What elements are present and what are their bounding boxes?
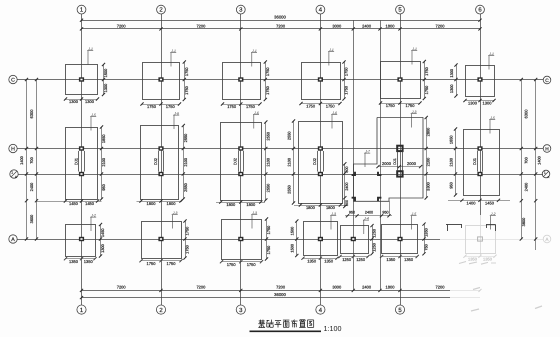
svg-text:1750: 1750 bbox=[184, 244, 189, 253]
svg-text:2550: 2550 bbox=[183, 182, 188, 191]
svg-text:1800: 1800 bbox=[306, 205, 316, 210]
svg-text:1300: 1300 bbox=[468, 101, 478, 106]
right dim text 3800 bbox=[521, 217, 526, 226]
footing J-3 at row A (A4) outline bbox=[304, 222, 338, 256]
leader flag J-2 at A1 bbox=[90, 214, 96, 232]
corner column L annex top-right bbox=[378, 172, 381, 175]
column at C4 bbox=[318, 77, 323, 81]
footing C2 bottom dimension bbox=[140, 102, 181, 109]
svg-text:7200: 7200 bbox=[117, 23, 127, 28]
footing C2 side dimension bbox=[183, 60, 189, 101]
svg-text:2100: 2100 bbox=[265, 157, 270, 166]
left dim text 1400 bbox=[19, 155, 24, 164]
column at A row A4a bbox=[351, 237, 356, 241]
svg-text:2550: 2550 bbox=[286, 184, 291, 193]
footing J-2 at row A (A1) outline bbox=[66, 225, 96, 257]
leader flag at middle row 6 bbox=[489, 116, 495, 134]
svg-text:J-6: J-6 bbox=[173, 112, 179, 116]
footing A6 bottom dimension bbox=[463, 255, 496, 262]
footing DJ22 side dimension bbox=[182, 124, 188, 201]
footing C5 bottom dimension bbox=[379, 101, 422, 108]
leader flag J-3 DJ3 top bbox=[411, 110, 417, 128]
svg-text:2550: 2550 bbox=[183, 133, 188, 142]
svg-text:1750: 1750 bbox=[386, 103, 396, 108]
axis bubble H right bbox=[543, 145, 551, 153]
svg-text:2100: 2100 bbox=[183, 157, 188, 166]
column at H3 bbox=[238, 146, 243, 150]
column at A row A4 bbox=[318, 237, 323, 241]
left dimension line outer bbox=[25, 78, 28, 241]
svg-text:DJ2: DJ2 bbox=[153, 158, 158, 165]
leader flag J-1 at C3 bbox=[251, 49, 257, 67]
svg-text:J-4: J-4 bbox=[363, 217, 369, 221]
left dim text 2400 bbox=[29, 182, 34, 191]
svg-text:7200: 7200 bbox=[436, 23, 446, 28]
svg-text:1800: 1800 bbox=[246, 202, 256, 207]
svg-text:1250: 1250 bbox=[342, 257, 352, 262]
axis line 1 vertical bbox=[81, 14, 83, 305]
svg-text:1750: 1750 bbox=[344, 67, 349, 76]
svg-text:1500: 1500 bbox=[290, 243, 295, 252]
corner column L annex top-left bbox=[352, 172, 355, 175]
footing A4 bottom dimension bbox=[301, 257, 338, 264]
svg-text:J-2: J-2 bbox=[90, 214, 96, 218]
svg-text:1350: 1350 bbox=[468, 257, 478, 262]
footing A4a bottom dimension bbox=[338, 255, 369, 262]
strip label DJ2 bbox=[153, 158, 158, 165]
svg-text:DJ2: DJ2 bbox=[233, 158, 238, 165]
svg-text:1750: 1750 bbox=[147, 104, 157, 109]
column at C2 bbox=[158, 77, 163, 81]
left dimension line inner bbox=[35, 78, 38, 241]
svg-text:J-1: J-1 bbox=[328, 48, 334, 52]
svg-text:2400: 2400 bbox=[362, 285, 372, 290]
strip label DJ1 bbox=[472, 158, 477, 165]
svg-text:1450: 1450 bbox=[100, 228, 105, 237]
intermediate axis line x=353 bbox=[353, 20, 355, 290]
column at 1/A 4 bbox=[318, 172, 323, 176]
axis bubble 1/A right bbox=[542, 170, 550, 179]
svg-text:1450: 1450 bbox=[485, 201, 495, 206]
footing DJ23 side dimension bbox=[264, 120, 270, 201]
svg-text:C: C bbox=[11, 78, 15, 84]
svg-text:1750: 1750 bbox=[344, 85, 349, 94]
footing A5 bottom dimension bbox=[380, 255, 419, 262]
svg-text:1350: 1350 bbox=[483, 257, 493, 262]
svg-text:1750: 1750 bbox=[147, 261, 157, 266]
strip beam at axis 3 bbox=[239, 151, 244, 172]
footing DJ22 bottom dimension bbox=[137, 199, 183, 206]
svg-text:7200: 7200 bbox=[276, 285, 286, 290]
svg-text:1800: 1800 bbox=[386, 23, 396, 28]
svg-text:3000: 3000 bbox=[332, 23, 342, 28]
svg-text:1750: 1750 bbox=[424, 85, 429, 94]
strip beam at axis 2 bbox=[159, 151, 164, 172]
svg-text:1250: 1250 bbox=[371, 242, 376, 251]
footing DJ3 at axis 5 outline bbox=[354, 118, 424, 202]
axis line A horizontal bbox=[17, 239, 543, 241]
svg-text:1350: 1350 bbox=[69, 259, 79, 264]
svg-text:7200: 7200 bbox=[117, 285, 127, 290]
column at 1/A 2 bbox=[158, 172, 163, 176]
title 基础平面布置图 (stroke-drawn) bbox=[250, 320, 322, 332]
right dim text 2400 bbox=[524, 182, 529, 191]
top dimension line 7200 segments bbox=[80, 23, 482, 30]
svg-text:2400: 2400 bbox=[345, 182, 349, 190]
svg-text:1800: 1800 bbox=[167, 201, 177, 206]
annex left dimension 800 2400 800 bbox=[343, 162, 349, 208]
svg-text:3600: 3600 bbox=[29, 214, 34, 223]
svg-text:1300: 1300 bbox=[483, 101, 493, 106]
column at C1 bbox=[79, 77, 84, 81]
svg-text:2100: 2100 bbox=[286, 157, 291, 166]
svg-text:800: 800 bbox=[345, 166, 349, 172]
leader flag J-1 at C2 bbox=[170, 49, 176, 67]
axis bubble 2 top bbox=[157, 5, 166, 14]
right dim text 700 bbox=[524, 156, 529, 163]
axis bubble 5 bottom bbox=[395, 305, 404, 314]
svg-text:1850: 1850 bbox=[101, 134, 106, 143]
axis bubble 1 top bbox=[77, 5, 86, 14]
svg-text:1750: 1750 bbox=[406, 103, 416, 108]
svg-text:1750: 1750 bbox=[227, 104, 237, 109]
footing C4 side dimension bbox=[342, 60, 348, 100]
svg-text:J-3: J-3 bbox=[330, 212, 336, 216]
footing J-1 at C6 outline bbox=[466, 66, 495, 97]
svg-text:7200: 7200 bbox=[196, 285, 206, 290]
leader flag J-2 at A6 bbox=[490, 212, 496, 230]
axis line 4 vertical bbox=[320, 14, 322, 305]
axis bubble 6 top bbox=[476, 5, 485, 14]
footing C1 side dimension bbox=[102, 63, 108, 96]
svg-text:700: 700 bbox=[29, 156, 34, 163]
svg-text:2400: 2400 bbox=[29, 182, 34, 191]
svg-text:1: 1 bbox=[11, 171, 13, 175]
svg-text:2000: 2000 bbox=[407, 161, 417, 166]
svg-text:J-5: J-5 bbox=[90, 113, 96, 117]
svg-text:DJ1: DJ1 bbox=[393, 158, 397, 165]
svg-text:J-1: J-1 bbox=[170, 49, 176, 53]
svg-text:1350: 1350 bbox=[307, 259, 317, 264]
column at A row A2 bbox=[158, 237, 163, 241]
column at H2 bbox=[158, 146, 163, 150]
footing DJ16 side dimension bbox=[448, 127, 457, 196]
leader flag at middle row 3 bbox=[253, 111, 259, 129]
svg-text:1400: 1400 bbox=[19, 155, 24, 164]
right dim text 1400 bbox=[537, 155, 542, 164]
svg-text:1750: 1750 bbox=[167, 261, 177, 266]
svg-text:950: 950 bbox=[349, 210, 355, 214]
axis bubble 3 bottom bbox=[236, 305, 245, 314]
svg-text:H: H bbox=[545, 147, 549, 153]
strip beam at axis 4 bbox=[318, 151, 324, 172]
svg-text:2000: 2000 bbox=[382, 161, 392, 166]
svg-text:J-7: J-7 bbox=[364, 150, 370, 154]
axis bubble 3 top bbox=[236, 5, 245, 14]
corner column L annex bottom-left bbox=[352, 198, 355, 201]
left dim text 6300 bbox=[29, 109, 34, 119]
footing C3 side dimension bbox=[264, 60, 270, 101]
svg-text:6300: 6300 bbox=[524, 109, 529, 119]
svg-text:2800: 2800 bbox=[426, 127, 431, 136]
column big at H5 bbox=[397, 146, 402, 151]
svg-text:1800: 1800 bbox=[326, 205, 336, 210]
bottom dimension line 7200 segments bbox=[80, 285, 482, 292]
svg-text:1750: 1750 bbox=[265, 67, 270, 76]
svg-text:1350: 1350 bbox=[404, 257, 414, 262]
svg-text:1750: 1750 bbox=[266, 225, 271, 234]
svg-text:1750: 1750 bbox=[306, 104, 316, 109]
svg-text:6300: 6300 bbox=[29, 109, 34, 119]
svg-text:36000: 36000 bbox=[274, 292, 286, 297]
column at C6 bbox=[477, 77, 482, 81]
strip beam at axis 6 bbox=[478, 151, 483, 172]
svg-text:750: 750 bbox=[423, 243, 428, 250]
axis bubble 4 top bbox=[316, 5, 325, 14]
top overall dimension line 36000 bbox=[80, 15, 482, 22]
svg-text:1300: 1300 bbox=[69, 99, 79, 104]
column at H1 bbox=[79, 146, 84, 150]
svg-text:DJ1: DJ1 bbox=[472, 158, 477, 165]
leader flag J-3 at A3 bbox=[251, 211, 257, 229]
svg-text:1850: 1850 bbox=[448, 135, 453, 144]
svg-text:1350: 1350 bbox=[84, 259, 94, 264]
svg-text:1250: 1250 bbox=[371, 228, 376, 237]
leader flag J-1 at C4 bbox=[328, 48, 334, 66]
leader flag J-1 at C6 bbox=[488, 52, 494, 70]
axis line 2 vertical bbox=[161, 14, 163, 305]
footing A2 bottom dimension bbox=[139, 259, 182, 266]
svg-text:1300: 1300 bbox=[103, 83, 108, 92]
svg-text:2100: 2100 bbox=[101, 157, 106, 166]
svg-text:J-1: J-1 bbox=[251, 49, 257, 53]
svg-text:2100: 2100 bbox=[448, 157, 453, 166]
svg-text:DJ1: DJ1 bbox=[73, 158, 78, 165]
svg-text:1450: 1450 bbox=[69, 201, 79, 206]
svg-text:1750: 1750 bbox=[247, 262, 257, 267]
svg-text:7200: 7200 bbox=[196, 23, 206, 28]
footing A1 bottom dimension bbox=[64, 257, 97, 264]
extension line annex step bbox=[389, 201, 391, 216]
svg-text:2100: 2100 bbox=[426, 157, 431, 166]
svg-text:2550: 2550 bbox=[286, 131, 291, 140]
leader flag J-5 at A5 bbox=[411, 212, 417, 230]
svg-text:7200: 7200 bbox=[276, 23, 286, 28]
axis bubble C left bbox=[9, 75, 17, 83]
strip label DJ2 bbox=[312, 158, 317, 165]
svg-text:1750: 1750 bbox=[246, 104, 256, 109]
column at 1/A 3 bbox=[238, 172, 243, 176]
axis bubble A right (faded) bbox=[543, 235, 551, 243]
left dim text 700 bbox=[29, 156, 34, 163]
footing DJ23 bottom dimension bbox=[216, 200, 265, 207]
svg-text:J-1: J-1 bbox=[411, 47, 417, 51]
leader flag J-3 at A4 bbox=[330, 212, 336, 230]
footing DJ11 side dimension bbox=[100, 125, 106, 200]
footing J-3 at row A (A3) outline bbox=[222, 220, 262, 260]
footing J-4 at row A (A4a) outline bbox=[341, 226, 369, 254]
axis line 5 vertical bbox=[400, 14, 402, 305]
svg-text:3000: 3000 bbox=[332, 285, 342, 290]
column at A row A5 bbox=[397, 237, 402, 241]
svg-text:J-5: J-5 bbox=[489, 116, 495, 120]
svg-text:J-6: J-6 bbox=[253, 111, 259, 115]
footing A4a side dimension bbox=[370, 224, 376, 255]
leader flag J-3 at A2 bbox=[172, 211, 178, 229]
DJ3 bottom dimension 950 2400 950 bbox=[345, 210, 392, 217]
intermediate axis line x=380 bbox=[380, 20, 382, 290]
strip label DJ2 bbox=[233, 158, 238, 165]
svg-text:1800: 1800 bbox=[226, 202, 236, 207]
svg-text:1750: 1750 bbox=[266, 245, 271, 254]
svg-text:800: 800 bbox=[345, 200, 349, 206]
svg-text:J-6: J-6 bbox=[331, 111, 337, 115]
column at A row A1 bbox=[79, 237, 84, 241]
leader flag J-7 annex bbox=[364, 150, 370, 168]
axis bubble A left bbox=[9, 235, 17, 243]
leader flag at middle row 4 bbox=[331, 111, 337, 129]
svg-text:1400: 1400 bbox=[537, 155, 542, 164]
svg-text:2400: 2400 bbox=[365, 210, 373, 214]
axis line C horizontal bbox=[17, 79, 543, 81]
svg-text:1:100: 1:100 bbox=[324, 324, 342, 333]
svg-text:1250: 1250 bbox=[356, 257, 366, 262]
svg-text:1750: 1750 bbox=[227, 262, 237, 267]
svg-text:A: A bbox=[11, 237, 15, 243]
strip label DJ1 bbox=[73, 158, 78, 165]
footing J-1 at C5 outline bbox=[381, 62, 421, 99]
svg-text:950: 950 bbox=[382, 210, 388, 214]
svg-text:A: A bbox=[547, 175, 549, 179]
column at H6 bbox=[477, 146, 482, 150]
axis line 6 vertical bbox=[480, 14, 482, 255]
footing J-3 at row A (A2) outline bbox=[142, 222, 182, 259]
DJ3 right side dimension 2800 2100 3300 bbox=[425, 116, 431, 200]
dimension 1450 1450 above A6 bbox=[448, 199, 510, 206]
footing DJ11 bottom dimension bbox=[37, 199, 102, 206]
footing DJ2 at axis 3 middle row outline bbox=[221, 123, 262, 201]
leader flag J-1 at C1 bbox=[87, 47, 93, 65]
svg-text:7200: 7200 bbox=[436, 285, 446, 290]
footing C3 bottom dimension bbox=[221, 102, 262, 109]
svg-text:1750: 1750 bbox=[265, 85, 270, 94]
svg-text:950: 950 bbox=[101, 183, 106, 190]
axis bubble 5 top bbox=[396, 5, 405, 14]
svg-text:C: C bbox=[545, 78, 549, 84]
column at 1/A 1 bbox=[79, 172, 84, 176]
footing J-5 at row A (A5) outline bbox=[382, 225, 418, 254]
axis bubble 1/A left bbox=[10, 170, 18, 179]
watermark faint marks bbox=[459, 262, 542, 312]
footing DJ1 at axis 6 middle row outline bbox=[464, 130, 500, 196]
footing A2 side dimension bbox=[183, 219, 189, 259]
footing DJ2 at axis 4 middle row outline bbox=[299, 122, 343, 204]
svg-text:1800: 1800 bbox=[386, 285, 396, 290]
footing A3 bottom dimension bbox=[220, 260, 263, 267]
axis bubble 4 bottom bbox=[316, 305, 325, 314]
column at H4 bbox=[318, 146, 323, 150]
svg-text:1500: 1500 bbox=[103, 68, 108, 77]
footing J-1 at C4 outline bbox=[302, 63, 341, 100]
svg-text:3800: 3800 bbox=[521, 217, 526, 226]
axis bubble 1 bottom bbox=[77, 305, 86, 314]
strip label DJ3 bbox=[393, 158, 397, 165]
svg-text:1300: 1300 bbox=[85, 99, 95, 104]
leader flag at middle row 1 bbox=[90, 113, 96, 131]
axis line 3 vertical bbox=[240, 14, 242, 305]
leader flag J-1 at C5 bbox=[411, 47, 417, 65]
right dim text 6300 bbox=[524, 109, 529, 119]
svg-text:1750: 1750 bbox=[184, 85, 189, 94]
axis bubble C right bbox=[543, 76, 551, 84]
bottom overall dimension line 36000 bbox=[80, 292, 480, 299]
beam stub left at A6 bbox=[446, 225, 462, 232]
footing C1 bottom dimension bbox=[64, 97, 99, 104]
svg-text:J-1: J-1 bbox=[87, 47, 93, 51]
footing J-2 at row A (A6) outline bbox=[466, 226, 496, 254]
svg-text:1300: 1300 bbox=[449, 68, 454, 77]
svg-text:1350: 1350 bbox=[324, 259, 334, 264]
svg-text:1450: 1450 bbox=[85, 201, 95, 206]
svg-text:1800: 1800 bbox=[147, 201, 157, 206]
axis bubble H left bbox=[9, 144, 17, 152]
footing C6 bottom dimension bbox=[463, 99, 495, 106]
column at A row A3 bbox=[238, 237, 243, 241]
title scale 1:100 bbox=[324, 324, 342, 333]
svg-text:2550: 2550 bbox=[265, 131, 270, 140]
left dim text 3600 bbox=[29, 214, 34, 223]
svg-text:1350: 1350 bbox=[423, 227, 428, 236]
footing J-1 at C2 outline bbox=[143, 63, 180, 100]
footing C5 side dimension bbox=[423, 60, 429, 100]
svg-text:1500: 1500 bbox=[290, 226, 295, 235]
column at C5 bbox=[397, 77, 402, 81]
axis bubble 2 bottom bbox=[156, 305, 165, 314]
svg-text:DJ2: DJ2 bbox=[312, 158, 317, 165]
svg-text:1300: 1300 bbox=[449, 84, 454, 93]
footing C4 bottom dimension bbox=[299, 102, 341, 109]
column at C3 bbox=[238, 77, 243, 81]
svg-text:1300: 1300 bbox=[100, 243, 105, 252]
leader flag J-4 at A4a bbox=[363, 217, 369, 235]
svg-text:950: 950 bbox=[448, 181, 453, 188]
svg-text:J-3: J-3 bbox=[251, 211, 257, 215]
footing J-1 at C1 outline bbox=[66, 65, 98, 95]
right dimension line outer bbox=[534, 78, 537, 250]
svg-text:1400: 1400 bbox=[467, 201, 477, 206]
svg-text:J-3: J-3 bbox=[411, 110, 417, 114]
column big at 1/A 5 bbox=[397, 171, 402, 176]
svg-text:1750: 1750 bbox=[424, 66, 429, 75]
footing J-1 at C3 outline bbox=[223, 63, 261, 100]
strip beam at axis 1 bbox=[79, 151, 85, 172]
beam stub right at A6 bbox=[486, 225, 496, 232]
footing A3 side dimension bbox=[265, 217, 271, 260]
svg-text:1750: 1750 bbox=[326, 104, 336, 109]
column at 1/A 6 bbox=[477, 172, 482, 176]
strip beam at axis 5 bbox=[398, 152, 403, 172]
leader flag at middle row 2 bbox=[173, 112, 179, 130]
svg-text:H: H bbox=[11, 147, 15, 153]
svg-text:3300: 3300 bbox=[426, 181, 431, 190]
svg-text:2400: 2400 bbox=[362, 23, 372, 28]
svg-text:1750: 1750 bbox=[184, 226, 189, 235]
footing A4 side dimension bbox=[290, 219, 299, 257]
right dimension line inner bbox=[520, 78, 523, 241]
svg-text:2400: 2400 bbox=[524, 182, 529, 191]
auxiliary axis line 1/A horizontal bbox=[18, 174, 543, 176]
corner column L annex bottom-right bbox=[378, 198, 381, 201]
